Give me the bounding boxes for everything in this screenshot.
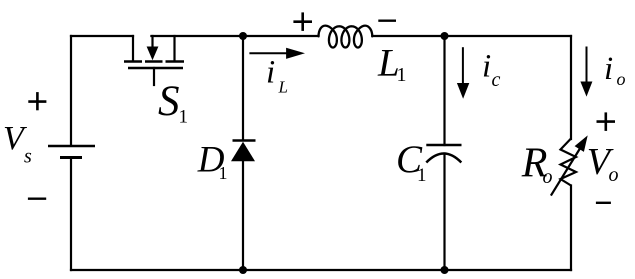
- battery Vs: [48, 146, 95, 158]
- label L1: [377, 42, 407, 86]
- svg-text:1: 1: [417, 165, 427, 186]
- wire bottom rail: [71, 269, 571, 271]
- inductor L1: [319, 26, 373, 48]
- label S1: [158, 78, 188, 127]
- plus sign Vo: [597, 112, 616, 130]
- label D1: [197, 140, 228, 183]
- plus sign L1: [293, 12, 312, 31]
- wire inductor to node B: [372, 35, 444, 37]
- transistor S1 (MOSFET switch): [124, 36, 184, 85]
- wire node B to top-right corner: [445, 35, 572, 37]
- wire D1 branch lower: [242, 161, 244, 270]
- arrow iL: [249, 48, 305, 59]
- wire left branch Vs top: [70, 36, 72, 145]
- svg-text:i: i: [266, 55, 275, 91]
- svg-text:o: o: [543, 166, 553, 188]
- arrow io: [580, 47, 592, 97]
- minus sign L1: [378, 20, 396, 22]
- label C1: [396, 138, 427, 186]
- svg-text:i: i: [482, 49, 491, 85]
- svg-text:o: o: [617, 69, 626, 89]
- wire left branch Vs bottom: [70, 158, 72, 271]
- capacitor C1: [426, 145, 461, 163]
- junction node B top: [441, 32, 449, 40]
- resistor Ro (variable): [551, 135, 588, 195]
- arrow ic: [457, 47, 469, 99]
- wire C1 branch lower: [443, 154, 445, 271]
- wire top-left from Vs to S1 drain: [71, 35, 133, 37]
- wire C1 branch upper: [443, 36, 445, 145]
- minus sign Vs: [28, 197, 46, 199]
- label Ro: [521, 141, 553, 188]
- label Vo: [587, 141, 619, 186]
- wire D1 branch upper: [242, 36, 244, 140]
- svg-text:c: c: [492, 69, 501, 91]
- label io: [604, 51, 626, 89]
- diode D1: [231, 141, 256, 162]
- label Vs: [3, 120, 32, 168]
- svg-text:o: o: [609, 164, 619, 186]
- wire S1 to node A: [151, 35, 243, 37]
- label ic: [482, 49, 501, 91]
- svg-text:1: 1: [179, 106, 189, 127]
- svg-text:s: s: [24, 146, 32, 168]
- plus sign Vs: [28, 92, 46, 110]
- minus sign Vo: [596, 202, 611, 204]
- junction node A top: [239, 32, 247, 40]
- svg-text:1: 1: [397, 64, 407, 86]
- wire right branch upper: [570, 36, 572, 139]
- svg-text:S: S: [158, 78, 180, 125]
- label iL: [266, 55, 288, 97]
- svg-text:i: i: [604, 51, 613, 87]
- wire node A to inductor: [243, 35, 319, 37]
- junction node B bottom: [441, 266, 449, 274]
- svg-text:1: 1: [219, 163, 228, 183]
- junction node A bottom: [239, 266, 247, 274]
- wire right branch lower: [570, 186, 572, 271]
- svg-text:L: L: [278, 78, 288, 97]
